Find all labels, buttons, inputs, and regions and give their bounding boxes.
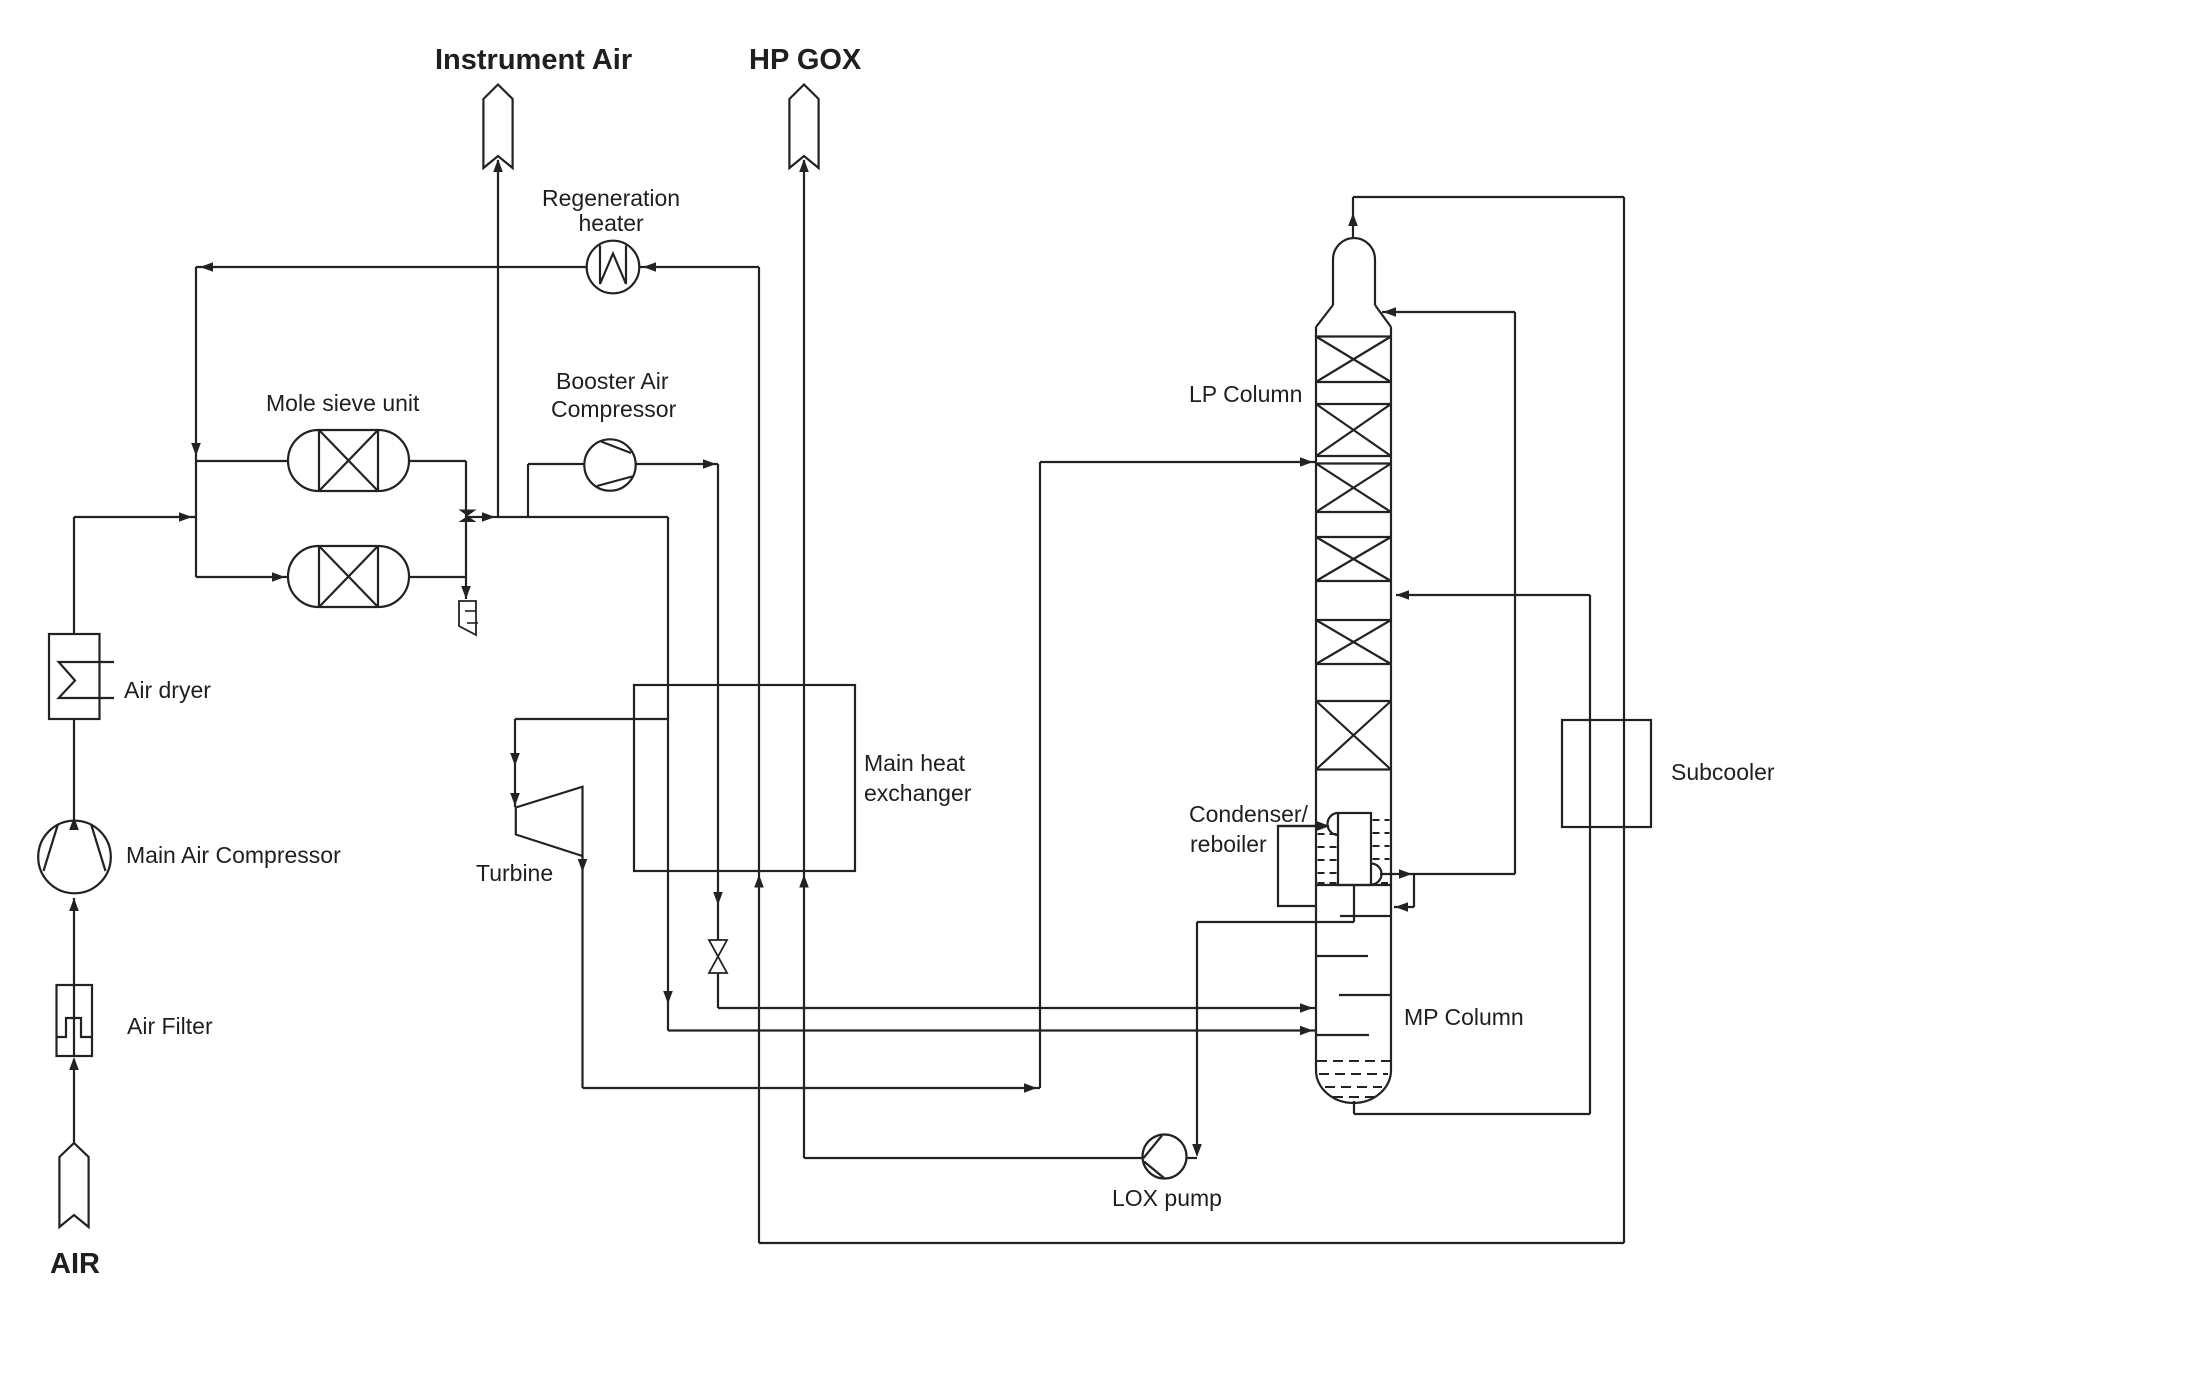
svg-text:MP Column: MP Column: [1404, 1004, 1524, 1030]
svg-text:Compressor: Compressor: [551, 396, 677, 422]
svg-text:Turbine: Turbine: [476, 860, 553, 886]
svg-text:Condenser/: Condenser/: [1189, 801, 1309, 827]
svg-text:reboiler: reboiler: [1190, 831, 1267, 857]
svg-text:Air dryer: Air dryer: [124, 677, 211, 703]
svg-text:LOX pump: LOX pump: [1112, 1185, 1222, 1211]
svg-text:HP GOX: HP GOX: [749, 44, 862, 76]
svg-text:LP Column: LP Column: [1189, 381, 1302, 407]
svg-text:exchanger: exchanger: [864, 780, 972, 806]
svg-text:Air Filter: Air Filter: [127, 1013, 213, 1039]
svg-text:heater: heater: [579, 210, 645, 236]
svg-text:Instrument Air: Instrument Air: [435, 44, 632, 76]
svg-text:AIR: AIR: [50, 1248, 100, 1280]
svg-text:Main heat: Main heat: [864, 750, 966, 776]
svg-text:Main Air Compressor: Main Air Compressor: [126, 842, 341, 868]
svg-text:Mole sieve unit: Mole sieve unit: [266, 390, 420, 416]
svg-text:Subcooler: Subcooler: [1671, 759, 1775, 785]
svg-text:Regeneration: Regeneration: [542, 185, 680, 211]
svg-text:Booster Air: Booster Air: [556, 368, 669, 394]
